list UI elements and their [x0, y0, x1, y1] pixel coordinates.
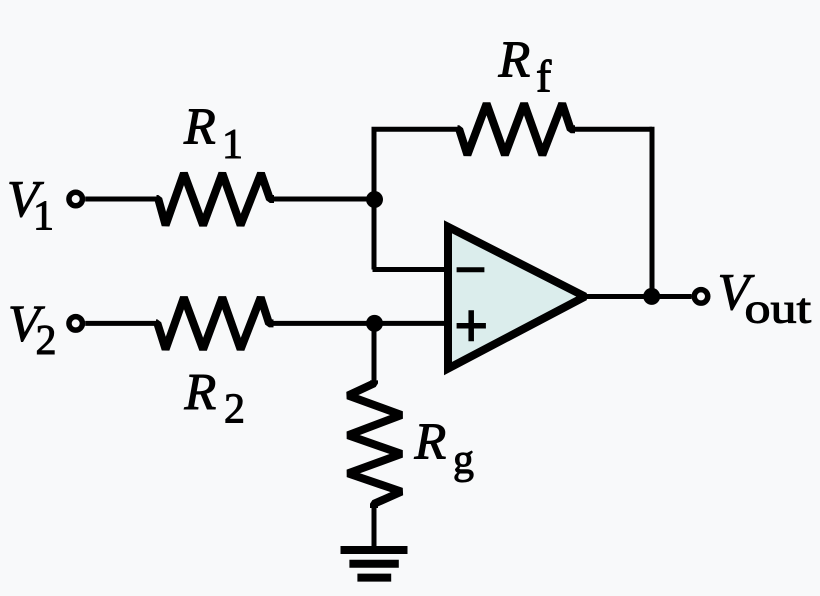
wire node B down to Rg	[372, 323, 377, 383]
wire node A down to inverting input	[372, 199, 377, 270]
svg-text:R: R	[184, 364, 217, 421]
wire op-amp output	[583, 294, 692, 299]
wire R2 to node B to plus input	[269, 321, 448, 326]
svg-text:R: R	[183, 98, 216, 155]
svg-text:R: R	[498, 32, 531, 89]
label R1	[183, 98, 243, 168]
wire V2 input to R2	[85, 321, 157, 326]
label V1	[7, 171, 54, 240]
label Rg	[414, 413, 475, 483]
output node junction dot	[643, 288, 660, 305]
resistor R2	[156, 298, 274, 350]
wire feedback top left	[372, 127, 460, 132]
terminal V2	[69, 317, 83, 331]
op-amp U1	[448, 227, 585, 369]
node B junction dot	[366, 315, 383, 332]
minus symbol	[457, 267, 485, 272]
svg-text:R: R	[414, 413, 447, 470]
wire node A up to feedback	[372, 129, 377, 199]
label Rf	[498, 32, 553, 102]
wire feedback down to output node	[650, 127, 655, 297]
svg-text:1: 1	[33, 193, 54, 239]
label R2	[184, 364, 246, 432]
ground	[341, 550, 408, 578]
plus symbol	[457, 310, 486, 341]
node A junction dot	[366, 191, 383, 208]
wire feedback top right	[571, 127, 652, 132]
resistor Rf	[458, 104, 576, 155]
terminal Vout	[694, 290, 708, 304]
svg-text:1: 1	[222, 122, 243, 168]
svg-text:g: g	[453, 437, 474, 483]
label V2	[8, 295, 57, 364]
wire V1 input to R1	[85, 197, 158, 202]
terminal V1	[69, 192, 83, 206]
wire R1 to node A	[270, 197, 375, 202]
svg-text:2: 2	[224, 386, 245, 432]
svg-text:2: 2	[36, 318, 57, 364]
wire Rg to ground	[372, 504, 377, 546]
label Vout	[718, 264, 811, 332]
resistor Rg	[348, 380, 402, 508]
svg-text:out: out	[745, 286, 812, 332]
svg-text:f: f	[536, 51, 552, 102]
resistor R1	[157, 173, 275, 225]
wire to op-amp minus input	[373, 267, 449, 272]
